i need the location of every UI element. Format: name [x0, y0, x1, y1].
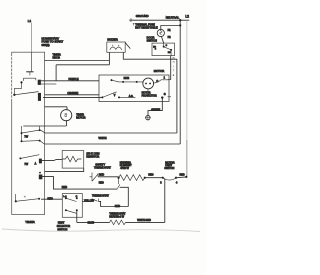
timer cam contact 2 [21, 140, 45, 144]
wire buzzer left pin [108, 52, 110, 65]
wire heat selector to thermostat [82, 200, 92, 202]
wire thermostat to loop [98, 201, 128, 206]
timer bottom contact [15, 194, 40, 202]
label RED upper [99, 174, 104, 177]
timer cam contact 3 [19, 155, 42, 166]
svg-text:THERMOSTAT: THERMOSTAT [92, 194, 109, 197]
motor run contact [111, 77, 144, 83]
label timer motor [76, 113, 85, 119]
buzzer [107, 42, 125, 52]
svg-text:ORANGE: ORANGE [67, 92, 78, 95]
heat selector contacts [63, 196, 77, 213]
timer motor M1 [61, 110, 72, 121]
label NEUTRAL [166, 15, 180, 19]
wire resistor return [45, 168, 84, 171]
thermostat TS2 [92, 199, 98, 202]
wire knob line [45, 60, 110, 62]
svg-text:F1: F1 [168, 28, 172, 32]
label WHITE-RED [137, 219, 151, 222]
svg-text:A.S.: A.S. [129, 95, 134, 98]
svg-text:RED: RED [115, 205, 120, 208]
label RED timer bottom [48, 198, 53, 201]
label THERMOSTAT lower [92, 194, 109, 197]
timer heat contact [39, 172, 43, 180]
node heater left [118, 177, 120, 179]
svg-text:MOTOR: MOTOR [154, 69, 164, 73]
door switch contacts [153, 43, 172, 56]
svg-text:YELLOW: YELLOW [84, 200, 95, 203]
svg-text:SWITCH: SWITCH [164, 167, 174, 170]
svg-text:RED: RED [99, 174, 104, 177]
svg-text:RED: RED [180, 173, 185, 176]
svg-text:SELECTOR: SELECTOR [57, 225, 71, 228]
wire heat selector bottom [77, 210, 110, 222]
pin F2 [168, 35, 172, 39]
svg-text:4: 4 [176, 182, 178, 185]
wire timer motor bottom [23, 120, 66, 126]
wire timer to resistor [42, 159, 62, 160]
label door switch [147, 36, 157, 43]
label BLUE [88, 222, 95, 225]
wire neutral drop [179, 20, 181, 144]
wire buzzer right pin to white drop [123, 52, 177, 59]
wire heater to cent switch [145, 177, 163, 179]
thermostat heater R2 [110, 220, 126, 225]
wire cent to L2 [176, 176, 186, 179]
wire timer to safety thermostat [42, 177, 117, 190]
wire L2 lead [186, 20, 188, 177]
svg-text:8: 8 [64, 113, 67, 119]
svg-text:H: H [173, 62, 175, 64]
svg-text:SW(S): SW(S) [42, 43, 50, 47]
wire timer to motor start [43, 96, 102, 98]
svg-text:C: C [166, 45, 168, 47]
label RED safety feed [62, 186, 67, 189]
wire timer to heat selector [41, 198, 62, 200]
wire safety to heater [98, 176, 119, 178]
timer cam contact 1 [21, 126, 45, 141]
label GREEN [151, 109, 160, 112]
svg-text:MOTOR: MOTOR [76, 116, 85, 119]
svg-text:NOT RESETTABLE: NOT RESETTABLE [135, 25, 158, 29]
svg-text:RED: RED [99, 182, 104, 185]
label RED lower right [115, 205, 120, 208]
label RED cent right [180, 173, 185, 176]
svg-text:SWITCH: SWITCH [147, 39, 157, 43]
timer main contact blade [13, 92, 41, 101]
wire L1 lead [30, 23, 32, 52]
svg-text:7W: 7W [24, 163, 28, 166]
motor box [99, 75, 169, 102]
svg-text:THERMOSTAT: THERMOSTAT [94, 167, 111, 170]
svg-text:HEATER-2 W: HEATER-2 W [109, 215, 124, 218]
label RED lower [99, 182, 104, 185]
wire green ground [148, 98, 162, 116]
svg-text:7W: 7W [24, 136, 28, 139]
label momentary push to start [42, 36, 64, 46]
thermal fuse F1-F2 [157, 29, 164, 36]
resistor 273K [62, 156, 81, 162]
label WHITE [99, 137, 107, 140]
svg-text:1: 1 [164, 77, 166, 80]
svg-text:BUZZER: BUZZER [107, 37, 118, 41]
svg-text:RUN: RUN [124, 77, 130, 80]
buzzer corner blade [125, 43, 130, 49]
wire white 2 [45, 143, 181, 145]
svg-text:TIMER: TIMER [25, 220, 35, 224]
label ORANGE [67, 92, 78, 95]
svg-text:E: E [173, 75, 175, 77]
wire fuse to door switch [162, 37, 164, 44]
motor start switch [101, 92, 135, 99]
svg-text:I: I [173, 66, 174, 68]
svg-text:F2: F2 [168, 35, 172, 39]
svg-text:4750 W: 4750 W [120, 167, 129, 170]
thermostat kink [117, 178, 120, 189]
label motor protector [142, 92, 157, 98]
node L1 [28, 19, 32, 23]
wire timer motor top [45, 107, 68, 110]
motor cent switch contacts [160, 177, 178, 185]
node heater right [144, 177, 146, 179]
pin 1 [164, 77, 171, 80]
label RED heater right [148, 173, 153, 176]
ground screw [145, 115, 151, 121]
label heating element [120, 161, 132, 170]
resistor box [62, 151, 83, 169]
wire orange [45, 94, 100, 96]
svg-text:PURPLE: PURPLE [69, 78, 79, 81]
label MOTOR [154, 69, 164, 73]
label timer knob [53, 52, 61, 59]
svg-text:L-1: L-1 [63, 196, 67, 198]
wire white 1 [45, 132, 177, 134]
svg-text:RED: RED [62, 186, 67, 189]
wire purple [41, 80, 99, 82]
label heat selector switch [57, 222, 71, 232]
svg-text:G: G [164, 93, 166, 96]
svg-text:KNOB: KNOB [53, 56, 61, 60]
heating element R1 [119, 175, 145, 181]
svg-text:RED: RED [148, 173, 153, 176]
svg-text:A: A [35, 163, 37, 166]
node L2 [185, 15, 189, 19]
svg-text:PROTECTOR: PROTECTOR [142, 94, 157, 97]
heat selector switch box [62, 194, 82, 218]
node junction neutral upper [179, 19, 181, 21]
door switch box [152, 43, 175, 56]
label safety thermostat [94, 164, 111, 170]
motor protector circle [143, 78, 154, 91]
label GROUND [136, 14, 149, 18]
svg-text:L1: L1 [28, 19, 32, 23]
pin C [153, 80, 169, 83]
label thermal fuse [133, 22, 158, 29]
svg-text:RESISTOR: RESISTOR [86, 155, 99, 158]
label PURPLE [69, 78, 79, 81]
svg-text:WHITE-RED: WHITE-RED [137, 219, 151, 222]
label motor cent switch [164, 161, 174, 170]
wire purple feed drop [55, 65, 57, 81]
wire purple stub [41, 83, 56, 85]
wire neutral rail [129, 19, 189, 21]
label thermostat heater [109, 213, 126, 219]
wire white drop right [176, 59, 178, 133]
wire cent switch down [164, 178, 166, 222]
ground symbol [129, 18, 132, 22]
page curl shadow [2, 229, 200, 232]
wire thermostat loop [120, 187, 129, 206]
push-to-start switch [14, 52, 41, 93]
label WHITE vertical [173, 58, 176, 77]
svg-text:V: V [114, 94, 116, 97]
svg-text:T: T [173, 71, 175, 73]
wire door switch to motor [170, 56, 172, 80]
svg-text:L2: L2 [185, 15, 189, 19]
safety thermostat TS1 [90, 173, 99, 182]
svg-text:GREEN: GREEN [151, 109, 160, 112]
wire line B [56, 64, 109, 66]
svg-text:BLUE: BLUE [88, 222, 95, 225]
label YELLOW [84, 200, 95, 203]
svg-text:NO: NO [168, 52, 171, 54]
svg-text:GROUND: GROUND [136, 14, 149, 18]
pin F1 [168, 28, 172, 32]
label BUZZER [107, 37, 118, 41]
node junction neutral lower [179, 24, 181, 26]
wire white-red [126, 221, 165, 223]
timer box [12, 52, 45, 214]
label TIMER [25, 220, 35, 224]
pin G [161, 93, 171, 99]
svg-text:3: 3 [160, 182, 162, 185]
svg-text:NEUTRAL: NEUTRAL [166, 15, 180, 19]
svg-text:WHITE: WHITE [99, 137, 107, 140]
wire fuse to neutral [161, 26, 180, 30]
label 273 K OHM resistor [86, 152, 99, 158]
node L2 bottom [185, 176, 187, 178]
